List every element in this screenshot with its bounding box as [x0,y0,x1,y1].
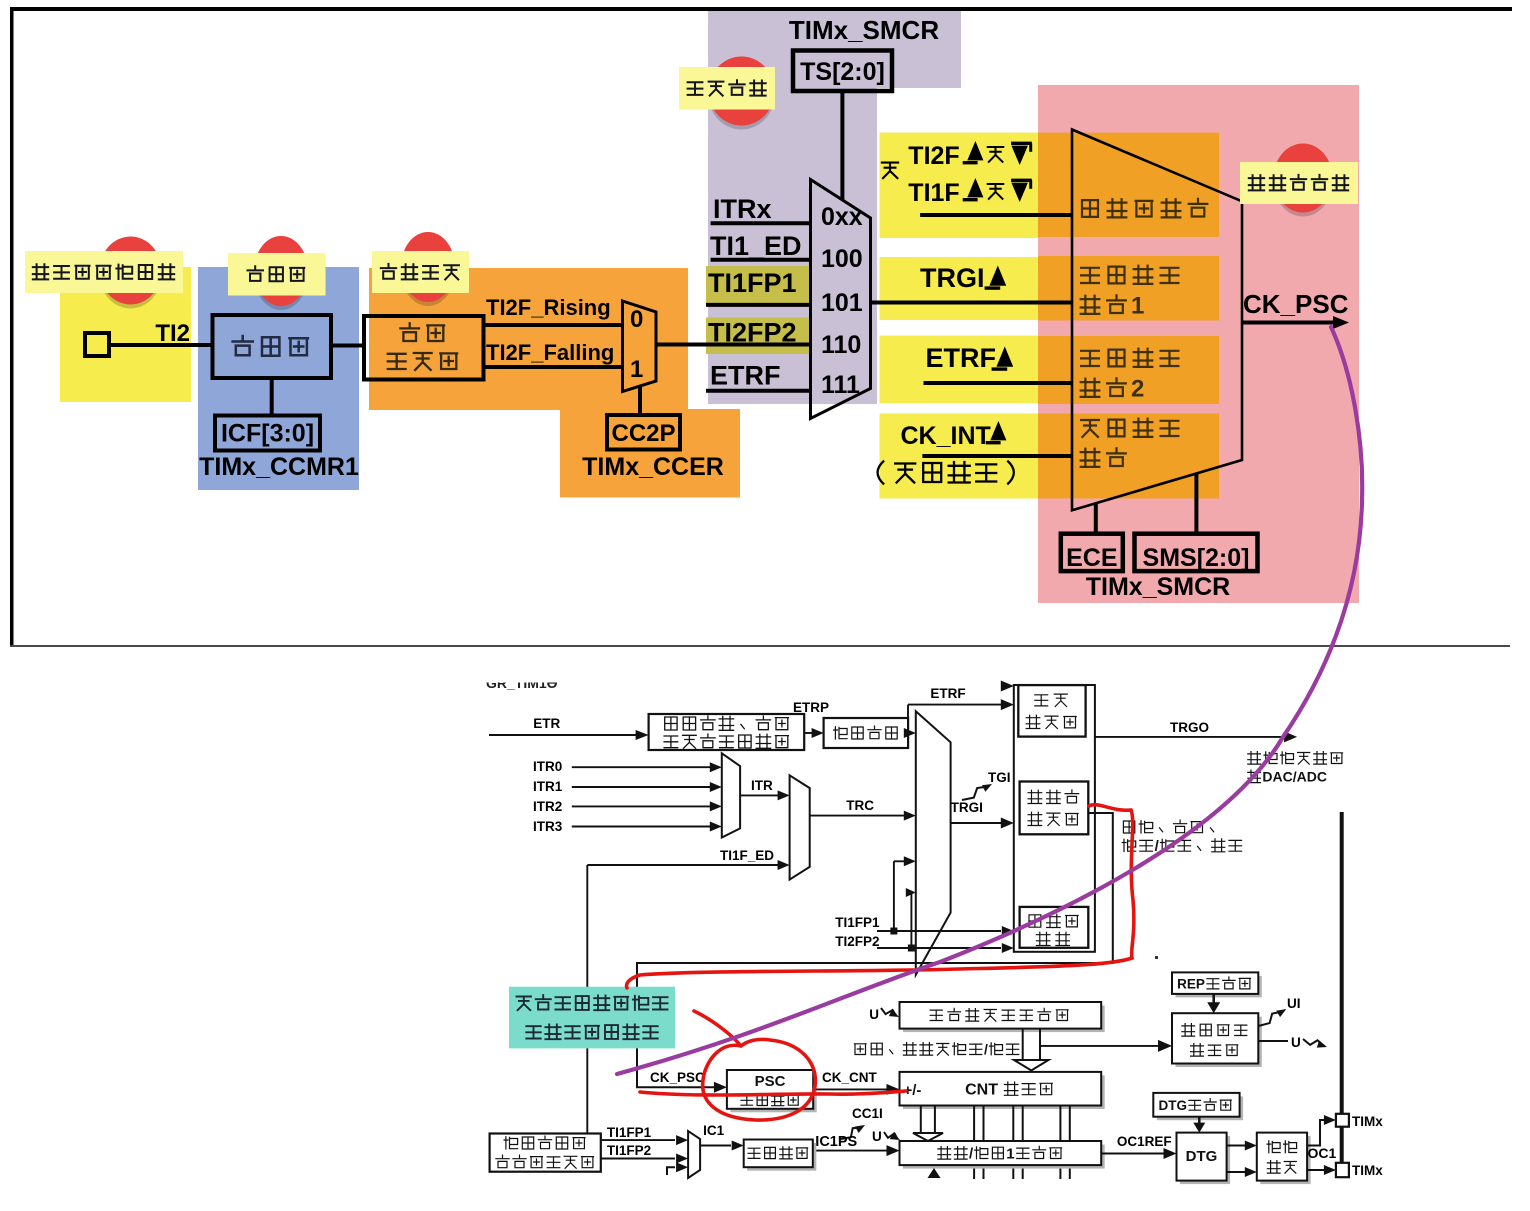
svg-text:IC1PS: IC1PS [815,1134,857,1150]
PSC prescaler box [730,1074,816,1113]
TIMx pin 2 [1307,1169,1324,1171]
slave mode mux trapezoid [1072,130,1242,511]
svg-text:1: 1 [630,356,643,383]
svg-text:U: U [872,1129,882,1144]
polarity mux 0/1 trapezoid [623,301,657,392]
wire to repetition counter [1040,1045,1158,1047]
svg-text:0: 0 [630,306,643,333]
output control box [1260,1136,1310,1184]
svg-text:CK_INT: CK_INT [901,422,991,450]
yellow strip encoder-mode inputs [880,133,1039,238]
teal annotation box [509,987,675,1049]
svg-text:CK_PSC: CK_PSC [1243,289,1349,319]
frame border left [10,7,14,647]
wire polarity mux output [656,343,811,347]
solid arrow DTG reg to DTG [1198,1117,1201,1123]
ITR mux trapezoid [722,753,740,837]
wire TI1_ED [711,258,811,262]
label stop clear updown [854,1044,866,1055]
svg-text:1: 1 [1006,1145,1014,1162]
CNT counter box [903,1075,1105,1109]
svg-text:ETRF: ETRF [710,361,781,391]
wire to ECE [1094,504,1098,535]
small arrow into trigger controller top [1001,681,1014,692]
label encoder mode [1082,200,1098,217]
filter blue region TIMx_CCMR1 [198,267,359,490]
svg-text:DAC/ADC: DAC/ADC [1262,769,1327,785]
IC1 mux trapezoid [688,1131,700,1178]
yellow strip CK_INT [880,414,1039,499]
encoder interface box [1020,907,1089,948]
svg-text:U: U [869,1007,879,1022]
prescaler box bottom [747,1143,816,1171]
TIMx pin 1 [1307,1120,1324,1146]
label or (encoder inputs) [882,163,898,179]
wire ETR [489,734,636,736]
svg-text:TI1F_ED: TI1F_ED [720,848,774,863]
wire TI2F_Rising [484,323,625,327]
third input hook [667,1167,675,1175]
wire ITR0 [572,766,710,768]
wire prescaler2 to capture [813,1150,887,1152]
label balloon clock-signal-input-pin [25,251,183,293]
svg-text:CK_PSC: CK_PSC [650,1070,705,1085]
svg-text:TRGI: TRGI [920,263,985,293]
wire trigger mux output TRGI [871,301,1073,305]
svg-text:TS[2:0]: TS[2:0] [800,58,885,86]
wire to SMS [1194,474,1198,534]
SMS[2:0] box [1135,534,1258,571]
wire TI2F_Falling [484,365,625,369]
wire ITR1 [572,786,710,788]
red balloon 1 [100,241,162,309]
trigger mux trapezoid [811,180,871,419]
arrow up into capture register [928,1168,941,1178]
svg-text:UI: UI [1287,996,1301,1011]
wire ITR to TRC mux [740,794,778,796]
svg-text:U: U [1291,1035,1301,1050]
label external clock mode 1 [1081,268,1099,283]
svg-text:TI2: TI2 [155,320,190,347]
ETRF node riser [907,705,909,733]
wire filter to ICF [270,378,274,416]
wire TI2 to filter [109,343,213,347]
small dot artifact [1155,956,1158,959]
svg-text:ITR: ITR [751,778,773,793]
svg-text:ECE: ECE [1066,544,1117,572]
svg-text:TI1FP2: TI1FP2 [607,1143,651,1158]
svg-text:ETR: ETR [533,716,560,731]
red pen circle around PSC prescaler [694,1011,815,1120]
wire ETRP [804,732,812,734]
slave mode controller box [1020,782,1089,835]
label reset enable updown count [1123,821,1134,833]
svg-text:CNT: CNT [965,1082,998,1099]
svg-text:TI1_ED: TI1_ED [710,231,802,261]
trigger-selection lavender region [708,9,877,404]
repetition counter box [1176,1017,1262,1067]
svg-text:TI2FP2: TI2FP2 [708,318,797,348]
svg-text:ITR3: ITR3 [533,819,563,834]
svg-text:1: 1 [1131,293,1144,320]
CC2P box [607,415,680,450]
inner orange box internal clock mode [1038,414,1219,499]
label internal clock mode [1081,420,1099,437]
label external clock mode 2 [1081,351,1099,366]
inner orange box encoder mode [1038,133,1219,237]
svg-text:CC1I: CC1I [852,1106,883,1121]
input filter and edge detector box [490,1134,601,1172]
red balloon 3 [401,236,455,306]
yellow strip TRGI [880,257,1039,320]
frame border top [10,7,1512,11]
svg-text:ITR1: ITR1 [533,779,563,794]
svg-text:ETRF: ETRF [926,343,997,373]
inner orange box external clock mode 1 [1038,256,1219,321]
label TGI squiggle [962,787,987,800]
svg-text:CK_CNT: CK_CNT [822,1070,878,1085]
REP register box [1176,976,1262,998]
svg-text:TIMx_CCMR1: TIMx_CCMR1 [199,453,359,481]
UI squiggle [1258,1012,1282,1026]
edge-detect orange region [369,268,688,410]
purple curve CK_PSC to PSC prescaler [617,327,1362,1074]
svg-text:CC2P: CC2P [611,420,675,447]
svg-text:SMS[2:0]: SMS[2:0] [1143,544,1250,572]
wire TRGO [1095,736,1284,738]
wire filter to edge detector [331,344,365,348]
svg-text:101: 101 [821,289,863,317]
svg-text:DTG: DTG [1186,1148,1218,1165]
label internal clock parenthetical [878,461,885,485]
wire TS to trigger mux [840,91,844,200]
svg-text:TIMx: TIMx [1352,1114,1383,1129]
svg-text:TIMx_CCER: TIMx_CCER [582,453,724,481]
pink region slave mode TIMx_SMCR [1038,85,1359,603]
clock input yellow region [60,267,191,402]
wire PSC to CNT [813,1088,887,1090]
svg-text:ITR0: ITR0 [533,759,562,774]
wire CK_INT to internal clock mode [922,454,1072,458]
wire ITRx [711,221,811,225]
wire ITR3 [572,826,710,828]
ECE box [1061,534,1123,571]
red balloon 2 [254,240,308,310]
svg-text:0xx: 0xx [821,203,863,231]
autoreload register box [903,1006,1105,1033]
svg-text:TI2F_Rising: TI2F_Rising [486,295,611,320]
wire ETRF to ext clock mode2 [924,381,1073,385]
svg-text:/: / [984,1041,988,1057]
yellow strip ETRF [880,336,1039,404]
DTG register box [1157,1096,1243,1120]
wire TI1F_ED [587,864,778,866]
wire TRGI to slave controller [951,822,1001,824]
svg-text:DTG: DTG [1159,1098,1188,1113]
svg-text:OC1: OC1 [1308,1145,1337,1161]
svg-text:TIMx: TIMx [1352,1163,1383,1178]
wire TI1FP1 bottom [601,1139,675,1141]
svg-text:TIMx_SMCR: TIMx_SMCR [1086,573,1230,601]
svg-text:111: 111 [821,371,860,399]
wire mux to CC2P [638,385,642,416]
bus lines below capture [973,1165,975,1179]
TS[2:0] box [793,51,892,92]
solid arrow REP to repetition counter [1212,994,1215,1003]
TRC mux trapezoid [790,775,810,879]
TIMx bus vertical line [1340,812,1344,1170]
red balloon 5 with white mark [1274,148,1333,217]
DTG box [1180,1136,1230,1184]
CNT to capture hollow arrow [920,1106,922,1134]
label balloon filter [228,253,326,296]
frame border bottom [10,645,1510,647]
svg-text:PSC: PSC [755,1073,786,1090]
svg-text:ICF[3:0]: ICF[3:0] [221,420,314,448]
riser TI1FP1 to TRGI mux [893,861,895,931]
wire ETRF [706,389,811,393]
wire ETRF to trigger controller [908,704,1001,706]
wire TI2FP2 to encoder interface [877,947,1001,949]
wire TI1FP2 bottom [601,1158,675,1160]
svg-text:TI1FP1: TI1FP1 [607,1125,652,1140]
filter box [213,315,332,378]
wire filter to ETRF mux [904,732,908,734]
svg-text:TRGO: TRGO [1170,720,1209,735]
edge-detect orange region lower part TIMx_CCER [560,409,740,498]
svg-text:TI2FP2: TI2FP2 [835,934,879,949]
wire TI1F_ED riser down to input filter box [586,865,588,1134]
input filter box [824,718,909,748]
polarity select edge detect prescaler box [649,714,805,750]
wire TI1FP1 [706,303,811,307]
U squiggle right of repetition counter [1258,1040,1288,1042]
svg-text:TRC: TRC [846,798,874,813]
lavender region top extension [877,9,961,88]
control path from slave controller to prescaler clock [637,813,1113,1087]
label balloon edge detect [372,251,469,293]
svg-text:TI1FP1: TI1FP1 [835,915,880,930]
svg-text:2: 2 [1131,376,1144,403]
svg-text:TI1FP1: TI1FP1 [708,268,797,298]
label balloon trigger selection [679,67,775,110]
svg-text:TI2F_Falling: TI2F_Falling [486,340,614,365]
wire ITR2 [572,805,710,807]
arrows DTG to output control [1227,1145,1245,1147]
svg-text:TIMx_SMCR: TIMx_SMCR [789,15,939,45]
inner orange box external clock mode 2 [1038,336,1219,404]
capture compare 1 register box [903,1145,1105,1169]
svg-text:OC1REF: OC1REF [1117,1134,1172,1149]
label balloon slave mode selection [1240,162,1358,204]
trigger controller box [1018,685,1085,737]
riser TI2FP2 to TRGI mux [910,893,912,949]
olive highlight row TI1FP1 [706,266,812,303]
svg-text:ETRF: ETRF [930,686,965,701]
svg-text:ITR2: ITR2 [533,799,562,814]
svg-text:ITRx: ITRx [713,194,772,224]
wire IC1 [700,1145,731,1147]
ICF[3:0] box [215,416,320,451]
bus lines CNT to capture [973,1106,975,1142]
svg-text:ETRP: ETRP [793,700,829,715]
svg-text:REP: REP [1177,976,1205,991]
wire TI1FP1 to encoder interface [877,930,1001,932]
edge detector box [364,316,484,380]
red pen loop around slave controller and encoder interface [627,805,1134,988]
wire encoder mode input [920,213,1072,217]
wire CK_PSC output arrow [1242,321,1336,325]
svg-text:110: 110 [821,331,861,359]
svg-text:IC1: IC1 [703,1123,725,1138]
svg-text:TGI: TGI [988,770,1011,785]
svg-text:TI2F: TI2F [908,142,959,170]
svg-text:TI1F: TI1F [908,179,959,207]
wire capture to DTG [1101,1153,1164,1155]
TI2 pad square [85,333,109,356]
red pen stroke along CK_PSC wire [640,1091,906,1095]
hollow down arrow autoreload to CNT [1022,1029,1024,1060]
svg-text:TRGI: TRGI [951,800,983,815]
red balloon 4 [709,61,775,130]
svg-text:100: 100 [821,245,863,273]
label to other timers to DAC/ADC [1248,752,1261,765]
controller container box [1014,685,1095,952]
wire TRC [810,815,904,817]
olive highlight row TI2FP2 [706,318,812,355]
TRGI mux tall trapezoid [916,711,951,975]
